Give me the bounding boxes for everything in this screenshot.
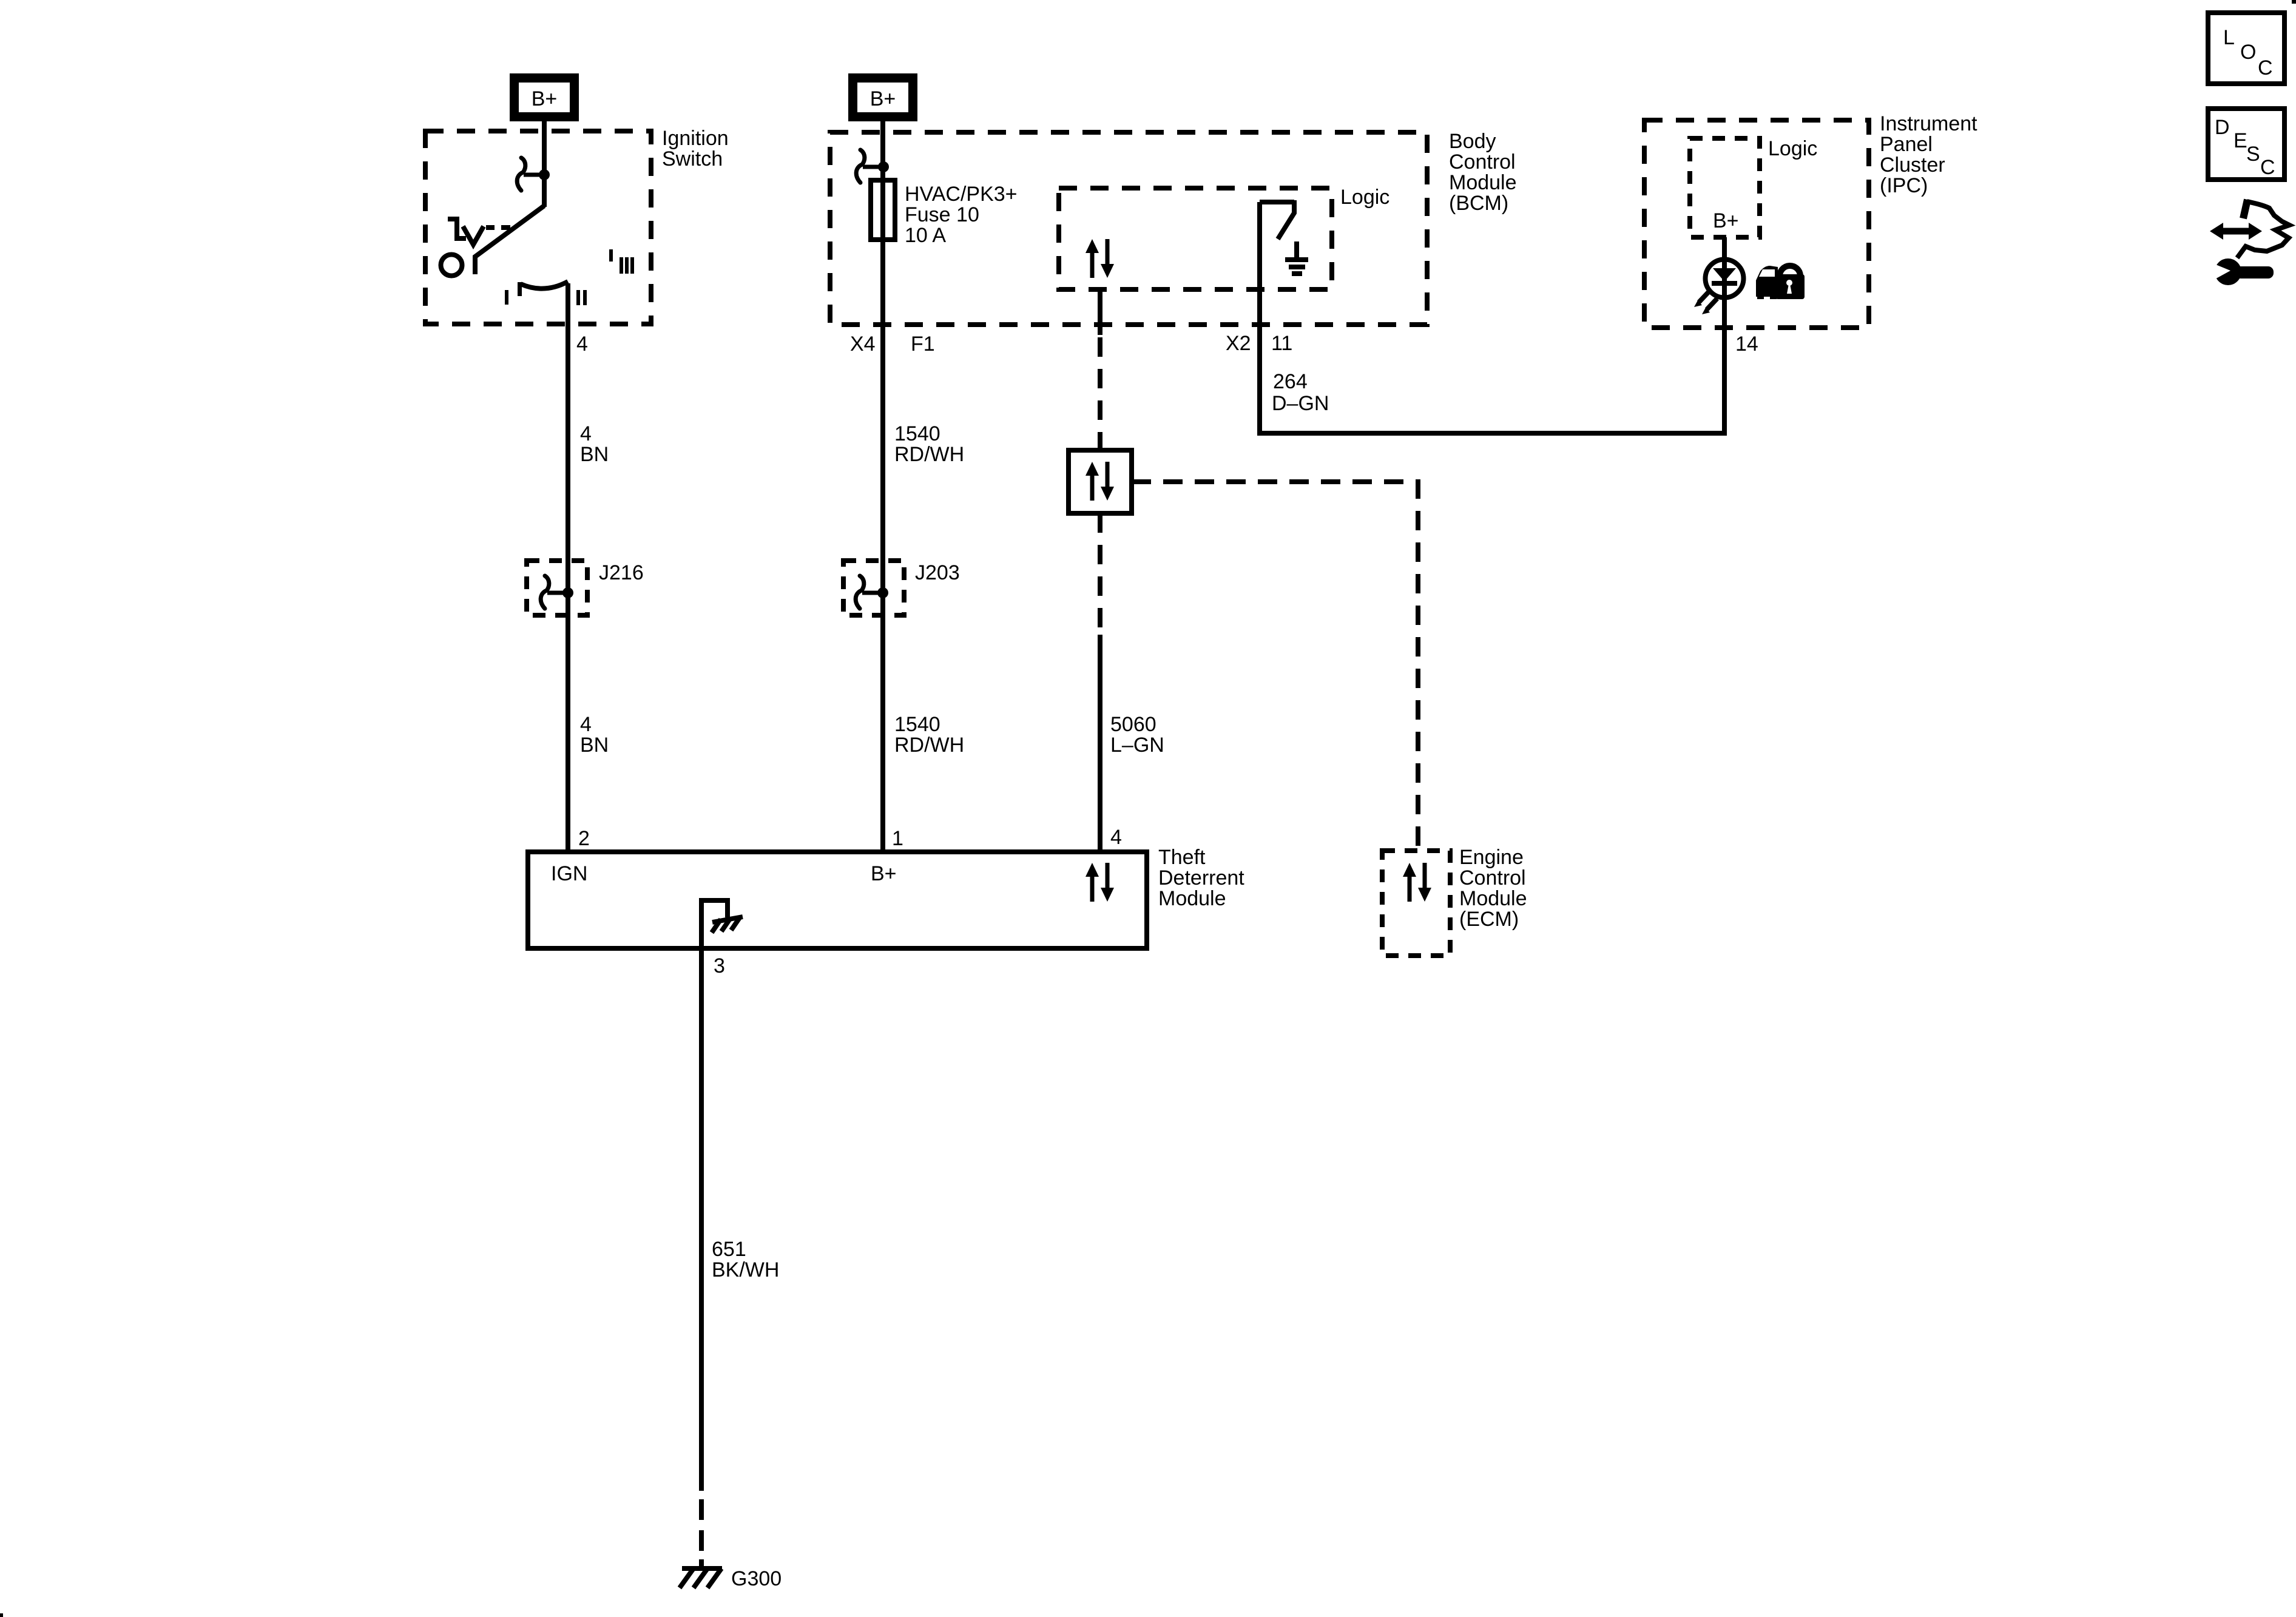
svg-text:Switch: Switch [662, 147, 723, 170]
svg-text:C: C [2260, 156, 2275, 179]
fuse HVAC/PK3+ Fuse 10 [871, 180, 895, 240]
svg-text:Module: Module [1158, 887, 1226, 910]
instrument panel cluster box [1644, 120, 1869, 328]
svg-text:Instrument: Instrument [1880, 112, 1977, 135]
wire label 4 BN lower [580, 713, 609, 757]
DESC tile [2208, 109, 2284, 180]
wire label 1540 RD/WH lower [894, 713, 964, 757]
svg-text:14: 14 [1735, 333, 1758, 356]
ECM label [1459, 846, 1527, 931]
switch to ground in logic box [1260, 200, 1308, 274]
svg-text:11: 11 [1271, 332, 1292, 355]
svg-text:(ECM): (ECM) [1459, 908, 1519, 931]
connector terminal at ignition feed [517, 158, 550, 191]
connector X2 pin 11 labels [1226, 332, 1292, 355]
power feed symbol B+ (BCM fuse) [848, 73, 917, 121]
service tool / connector icon [2210, 200, 2289, 258]
svg-text:Control: Control [1459, 866, 1526, 890]
svg-text:Logic: Logic [1768, 137, 1817, 160]
svg-text:X4: X4 [850, 333, 876, 356]
indicator LED [1706, 260, 1744, 298]
svg-text:Fuse 10: Fuse 10 [905, 203, 979, 226]
svg-text:Theft: Theft [1158, 846, 1206, 869]
svg-text:1540: 1540 [894, 713, 940, 736]
Ignition Switch label [662, 127, 729, 170]
connector X4 pin F1 labels [850, 333, 935, 356]
theft module name label [1158, 846, 1244, 910]
wire label 1540 RD/WH upper [894, 422, 964, 466]
BCM label [1449, 130, 1517, 215]
svg-text:BK/WH: BK/WH [712, 1258, 779, 1281]
svg-text:1540: 1540 [894, 422, 940, 445]
svg-text:Control: Control [1449, 150, 1516, 174]
svg-text:HVAC/PK3+: HVAC/PK3+ [905, 183, 1018, 206]
svg-text:2: 2 [578, 827, 590, 850]
svg-text:S: S [2246, 143, 2260, 166]
wire label 4 BN upper [580, 422, 609, 466]
B+ logic box in IPC [1690, 138, 1760, 237]
wire BCM pin 11 to IPC pin 14 (264 D-GN) [1260, 202, 1724, 433]
svg-text:B+: B+ [1713, 209, 1739, 232]
svg-text:Engine: Engine [1459, 846, 1524, 869]
key symbol [448, 219, 510, 245]
svg-text:RD/WH: RD/WH [894, 734, 964, 757]
svg-text:X2: X2 [1226, 332, 1251, 355]
position I mark [505, 290, 508, 305]
wire logic to BCM edge [1098, 287, 1102, 450]
svg-text:B+: B+ [871, 862, 897, 885]
power feed symbol B+ (ignition) [510, 73, 579, 121]
light emission arrows [1694, 291, 1717, 314]
ignition switch box [425, 131, 651, 324]
svg-text:Module: Module [1449, 171, 1517, 194]
fuse label [905, 183, 1018, 247]
data link symbol box [1069, 450, 1132, 513]
connector terminal at fuse [856, 150, 889, 183]
BCM logic box [1059, 188, 1332, 289]
body control module box [830, 132, 1427, 325]
LOC tile [2208, 13, 2284, 84]
svg-text:Cluster: Cluster [1880, 154, 1945, 177]
svg-text:G300: G300 [731, 1567, 782, 1590]
svg-text:1: 1 [892, 827, 903, 850]
svg-text:F1: F1 [911, 333, 935, 356]
svg-text:Body: Body [1449, 130, 1496, 153]
svg-text:BN: BN [580, 734, 609, 757]
wire label 264 D-GN [1272, 370, 1329, 415]
svg-text:4: 4 [576, 333, 588, 356]
svg-text:B+: B+ [870, 87, 896, 110]
position II mark [576, 290, 587, 305]
svg-text:10 A: 10 A [905, 224, 946, 247]
svg-text:Panel: Panel [1880, 133, 1933, 156]
wire ignition pin 4 down to theft module [566, 283, 570, 852]
svg-text:BN: BN [580, 443, 609, 466]
svg-text:Module: Module [1459, 887, 1527, 910]
ground G300 [680, 1567, 782, 1590]
svg-text:4: 4 [1110, 826, 1122, 849]
svg-text:Deterrent: Deterrent [1158, 866, 1244, 890]
internal ground theft module [701, 900, 743, 948]
position III mark [609, 249, 634, 274]
wire B+ through fuse down to theft module [880, 121, 885, 852]
svg-text:RD/WH: RD/WH [894, 443, 964, 466]
wire label 5060 L-GN [1110, 713, 1164, 757]
wire B+ to ignition switch contact [542, 121, 547, 207]
wire 651 to ground [699, 948, 704, 1566]
svg-text:C: C [2258, 56, 2273, 79]
svg-text:651: 651 [712, 1238, 746, 1261]
ignition switch blade [475, 206, 544, 274]
theft deterrent module box [528, 852, 1147, 948]
wire 5060 to theft pin 4 [1098, 513, 1102, 852]
svg-text:B+: B+ [532, 87, 558, 110]
switch pivot circle [441, 255, 462, 276]
contact arc I-II [521, 282, 568, 289]
svg-text:E: E [2234, 129, 2247, 152]
vehicle security indicator icon [1756, 266, 1805, 299]
svg-text:4: 4 [580, 422, 592, 445]
svg-text:4: 4 [580, 713, 592, 736]
data arrows in theft module [1086, 863, 1114, 902]
data arrows in logic box [1086, 239, 1114, 278]
svg-text:(IPC): (IPC) [1880, 174, 1928, 197]
svg-text:J216: J216 [599, 561, 644, 584]
svg-text:D: D [2215, 116, 2230, 139]
svg-text:L–GN: L–GN [1110, 734, 1164, 757]
svg-text:O: O [2240, 41, 2256, 64]
svg-text:5060: 5060 [1110, 713, 1156, 736]
svg-text:D–GN: D–GN [1272, 392, 1329, 415]
page corner mark bottom left [0, 1613, 3, 1617]
svg-text:(BCM): (BCM) [1449, 192, 1508, 215]
contact tick [518, 282, 522, 296]
svg-text:Ignition: Ignition [662, 127, 729, 150]
engine control module box [1382, 851, 1450, 956]
svg-text:3: 3 [714, 954, 725, 977]
svg-text:IGN: IGN [551, 862, 587, 885]
svg-text:Logic: Logic [1340, 186, 1389, 209]
IPC label [1880, 112, 1977, 197]
splice J216 [527, 561, 644, 615]
svg-text:J203: J203 [915, 561, 960, 584]
dashed wire to ECM [1132, 482, 1418, 851]
wire label 651 BK/WH [712, 1238, 779, 1281]
svg-text:L: L [2223, 26, 2235, 49]
splice J203 [843, 561, 960, 615]
wrench icon [2210, 258, 2274, 285]
page corner mark top right [2292, 0, 2296, 4]
svg-text:264: 264 [1273, 370, 1308, 393]
